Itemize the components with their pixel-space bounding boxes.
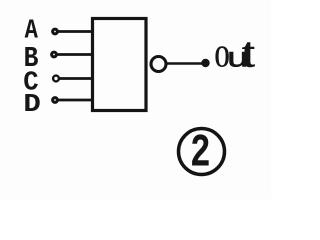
input terminal C (open circle) bbox=[53, 76, 59, 82]
wire output bbox=[167, 62, 202, 65]
input terminal A (open circle) bbox=[53, 29, 58, 34]
svg-text:A: A bbox=[25, 16, 38, 47]
inversion bubble at gate output bbox=[151, 57, 166, 72]
wire input C bbox=[59, 77, 92, 80]
wire input D bbox=[58, 99, 92, 102]
input terminal B (open circle) bbox=[52, 52, 57, 57]
svg-text:2: 2 bbox=[190, 128, 211, 180]
wire input A bbox=[58, 30, 92, 33]
wire input B bbox=[57, 53, 92, 56]
output node dot bbox=[201, 59, 209, 67]
svg-text:t: t bbox=[241, 29, 255, 77]
svg-text:D: D bbox=[23, 90, 40, 119]
input terminal D (open circle) bbox=[53, 98, 58, 103]
figure number circle bbox=[179, 129, 225, 175]
gate U1 body (4-input NAND, rectangular symbol) bbox=[93, 19, 147, 111]
